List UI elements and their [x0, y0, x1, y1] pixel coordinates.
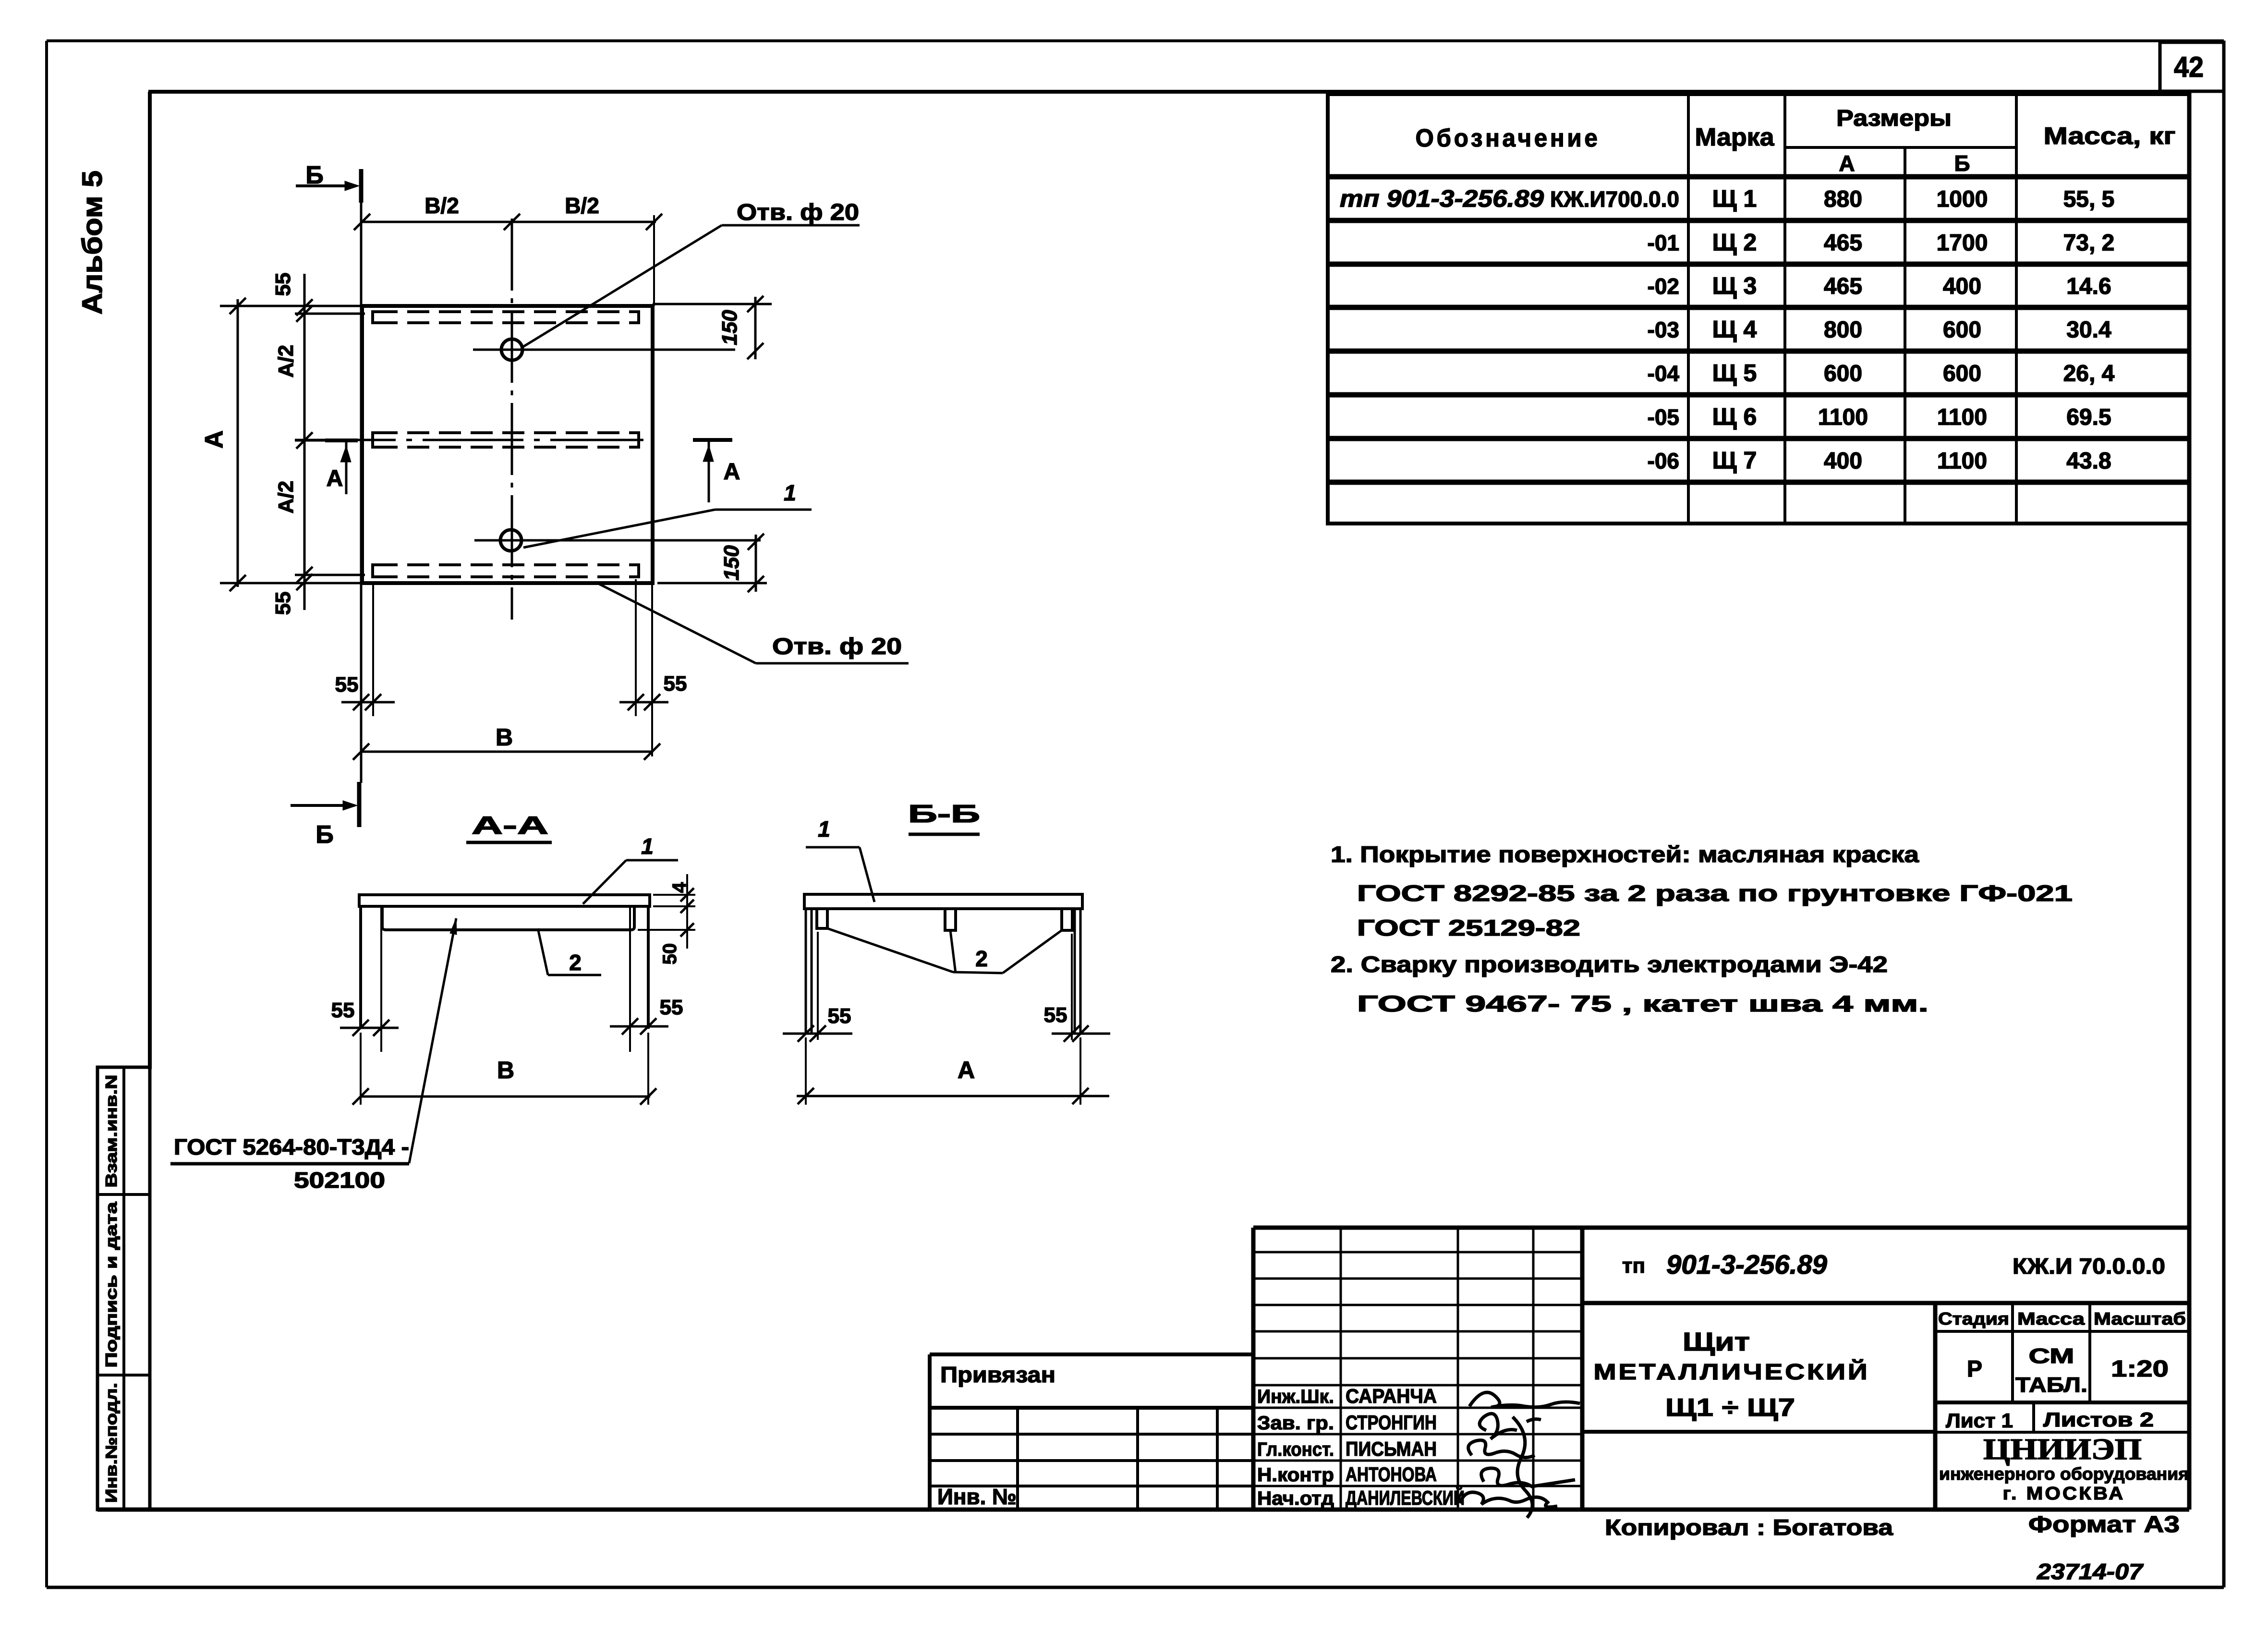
svg-text:465: 465: [1824, 231, 1862, 256]
svg-text:Привязан: Привязан: [940, 1362, 1055, 1387]
svg-text:ТАБЛ.: ТАБЛ.: [2015, 1373, 2087, 1397]
svg-text:Взам.инв.N: Взам.инв.N: [102, 1075, 120, 1188]
svg-text:А/2: А/2: [274, 481, 298, 513]
svg-text:Щ 4: Щ 4: [1712, 316, 1757, 343]
svg-text:1: 1: [641, 834, 654, 859]
svg-text:Щ 1: Щ 1: [1712, 185, 1757, 212]
svg-text:Щ1 ÷ Щ7: Щ1 ÷ Щ7: [1665, 1394, 1795, 1422]
section line Б (vertical through left edge): [360, 202, 363, 783]
svg-text:А: А: [724, 459, 740, 485]
svg-text:Б: Б: [305, 161, 323, 189]
svg-text:Обозначение: Обозначение: [1416, 124, 1601, 152]
svg-text:инженерного оборудования: инженерного оборудования: [1939, 1464, 2189, 1484]
section marker А right: [693, 440, 740, 502]
svg-text:55: 55: [1044, 1003, 1067, 1027]
svg-text:600: 600: [1943, 317, 1981, 343]
dimension 4 (plate thickness): [653, 874, 695, 915]
slot 2 (middle, dashed) with section centerline: [295, 433, 643, 447]
stage/mass/scale values: [1967, 1344, 2169, 1397]
svg-text:1100: 1100: [1937, 405, 1987, 430]
svg-text:1: 1: [784, 480, 796, 505]
project number тп 901-3-256.89: [1622, 1249, 1827, 1279]
title block outer outline: [1253, 1228, 2189, 1510]
dimension 50 (bar height): [638, 915, 695, 964]
svg-text:СТРОНГИН: СТРОНГИН: [1346, 1411, 1437, 1434]
svg-text:Инв. №: Инв. №: [937, 1484, 1017, 1509]
svg-text:400: 400: [1943, 274, 1981, 299]
svg-text:В: В: [497, 1057, 514, 1084]
leader 1 (А-А plate): [583, 834, 678, 904]
svg-text:150: 150: [718, 310, 741, 345]
plan vertical centreline (dash-dot): [511, 219, 513, 620]
dimension В (А-А): [352, 1033, 656, 1105]
page number box 42: [2160, 42, 2224, 91]
svg-text:Нач.отд: Нач.отд: [1257, 1488, 1334, 1509]
svg-text:АНТОНОВА: АНТОНОВА: [1346, 1463, 1437, 1486]
svg-text:69.5: 69.5: [2066, 405, 2111, 430]
svg-text:600: 600: [1943, 361, 1981, 387]
svg-text:Б-Б: Б-Б: [908, 800, 980, 828]
svg-text:Стадия: Стадия: [1938, 1309, 2009, 1328]
drawing title Щит металлический Щ1÷Щ7: [1594, 1328, 1870, 1422]
svg-text:Подпись и дата: Подпись и дата: [102, 1202, 120, 1368]
svg-text:ГОСТ 5264-80-Т3Д4 -: ГОСТ 5264-80-Т3Д4 -: [174, 1134, 409, 1159]
svg-text:Отв. ф 20: Отв. ф 20: [737, 200, 859, 225]
svg-text:1700: 1700: [1937, 231, 1988, 256]
svg-text:4: 4: [669, 882, 690, 893]
signature rows labels: [1257, 1385, 1465, 1509]
svg-text:Марка: Марка: [1695, 123, 1775, 151]
А-А top plate (item 1): [359, 895, 650, 906]
left margin boxes (Взам.инв.N / Подпись и дата / Инв.N подл.): [97, 1067, 150, 1510]
hole top (Отв. ф20): [473, 339, 735, 360]
svg-text:Щ 2: Щ 2: [1712, 229, 1757, 256]
svg-text:1000: 1000: [1937, 187, 1988, 212]
svg-text:30.4: 30.4: [2066, 317, 2111, 343]
svg-text:САРАНЧА: САРАНЧА: [1346, 1385, 1437, 1407]
svg-text:Копировал : Богатова: Копировал : Богатова: [1605, 1515, 1893, 1540]
title cell bottom divider: [1582, 1430, 1935, 1434]
svg-text:465: 465: [1824, 274, 1862, 299]
svg-text:23714-07: 23714-07: [2037, 1559, 2144, 1584]
svg-text:55: 55: [271, 273, 295, 296]
leader Отв. ф20 (bottom slot): [595, 582, 909, 663]
album label rotated: Альбом 5: [77, 171, 108, 315]
svg-text:1100: 1100: [1818, 405, 1868, 430]
svg-text:-04: -04: [1648, 361, 1680, 386]
leader Отв. ф20 (top hole): [522, 200, 860, 348]
svg-text:-01: -01: [1648, 231, 1679, 256]
svg-text:ГОСТ 25129-82: ГОСТ 25129-82: [1357, 915, 1580, 940]
svg-text:1:20: 1:20: [2111, 1356, 2169, 1382]
section Б-Б title: [908, 800, 980, 834]
section А-А title: [466, 812, 552, 842]
document code КЖ.И 70.0.0.0: [2013, 1254, 2165, 1279]
leader 1 (Б-Б plate): [806, 816, 874, 902]
svg-text:КЖ.И 70.0.0.0: КЖ.И 70.0.0.0: [2013, 1254, 2165, 1279]
svg-text:55: 55: [331, 999, 355, 1022]
bottom margin: Копировал / Формат: [1605, 1512, 2180, 1540]
svg-text:1: 1: [818, 816, 830, 841]
section marker Б top: [296, 161, 361, 203]
svg-text:СМ: СМ: [2029, 1344, 2074, 1368]
svg-text:1. Покрытие поверхностей: мас: 1. Покрытие поверхностей: масляная краск…: [1331, 841, 1919, 867]
svg-text:В/2: В/2: [424, 193, 459, 218]
svg-text:55: 55: [271, 592, 295, 615]
leader 2 (Б-Б): [975, 946, 988, 971]
svg-text:МЕТАЛЛИЧЕСКИЙ: МЕТАЛЛИЧЕСКИЙ: [1594, 1359, 1870, 1384]
svg-text:Щ 6: Щ 6: [1712, 403, 1757, 430]
svg-text:Альбом 5: Альбом 5: [77, 171, 108, 315]
svg-text:502100: 502100: [294, 1168, 385, 1193]
svg-text:42: 42: [2174, 51, 2204, 83]
dimensions 55 55 (plan bottom): [335, 579, 687, 756]
svg-text:2. Сварку производить электр: 2. Сварку производить электродами Э-42: [1331, 951, 1888, 977]
dimension chain 55 / А/2 / А/2 / 55 (left): [271, 273, 365, 615]
svg-text:Щ 7: Щ 7: [1712, 447, 1757, 474]
А-А stiffener bar (item 2): [382, 908, 634, 930]
svg-text:Щ 5: Щ 5: [1712, 360, 1757, 387]
svg-text:55: 55: [664, 672, 687, 695]
svg-text:55: 55: [335, 673, 359, 696]
ГОСТ weld leader arrow: [409, 918, 457, 1163]
А-А legs (angle frame): [361, 906, 648, 1052]
svg-text:55: 55: [828, 1004, 851, 1028]
svg-text:2: 2: [975, 946, 988, 971]
svg-text:Листов 2: Листов 2: [2043, 1408, 2154, 1431]
section marker Б bottom: [291, 782, 359, 849]
dimension А (Б-Б): [797, 1037, 1109, 1105]
stage/mass/scale header: [1935, 1303, 2189, 1402]
svg-text:800: 800: [1824, 317, 1862, 343]
svg-text:-06: -06: [1648, 449, 1679, 474]
svg-text:Гл.конст.: Гл.конст.: [1257, 1439, 1334, 1460]
svg-text:Размеры: Размеры: [1836, 106, 1952, 131]
svg-text:А: А: [200, 430, 228, 449]
svg-text:Масса: Масса: [2017, 1309, 2085, 1328]
Б-Б top plate (item 1): [804, 894, 1082, 909]
dimension В (plan bottom): [353, 724, 660, 760]
svg-text:Р: Р: [1967, 1356, 1982, 1382]
svg-text:55: 55: [660, 996, 683, 1019]
svg-text:-03: -03: [1648, 317, 1679, 342]
svg-text:50: 50: [659, 943, 680, 965]
svg-text:ГОСТ 9467- 75 , катет шва: ГОСТ 9467- 75 , катет шва 4 мм.: [1357, 991, 1928, 1016]
slot 3 (bottom, dashed): [373, 565, 639, 577]
svg-text:880: 880: [1824, 187, 1862, 212]
svg-text:-05: -05: [1648, 405, 1679, 430]
signatures (handwritten squiggles): [1460, 1392, 1580, 1518]
svg-text:В: В: [496, 724, 513, 751]
slot 1 (top, dashed): [373, 312, 639, 323]
organization ЦНИИЭП: [1939, 1433, 2189, 1504]
svg-text:Формат А3: Формат А3: [2028, 1512, 2180, 1537]
svg-text:600: 600: [1824, 361, 1862, 387]
svg-text:Щ 3: Щ 3: [1712, 272, 1757, 299]
dimension 150 (bottom): [657, 534, 767, 592]
hole bottom (Отв. ф20): [474, 530, 761, 551]
svg-text:150: 150: [720, 545, 743, 581]
drawing inner frame: [97, 92, 2189, 1510]
dimension В/2 В/2 (top): [354, 193, 662, 306]
Б-Б legs: [806, 909, 1080, 1034]
svg-text:А/2: А/2: [274, 345, 298, 378]
dimensions 55 55 (Б-Б): [783, 932, 1110, 1042]
attachment stair table (Привязан / Инв.N): [930, 1354, 1253, 1510]
inventory number 23714-07: [2037, 1559, 2144, 1584]
leader 1 (bottom hole): [523, 480, 812, 548]
leader 2 (А-А): [538, 928, 601, 975]
svg-text:А: А: [327, 466, 343, 491]
svg-text:Щит: Щит: [1683, 1328, 1750, 1356]
dimensions 55 55 (А-А): [331, 996, 683, 1036]
svg-text:ПИСЬМАН: ПИСЬМАН: [1346, 1438, 1437, 1460]
sheet numbers row: [1935, 1402, 2189, 1432]
svg-text:Инж.Шк.: Инж.Шк.: [1257, 1386, 1334, 1407]
svg-text:Инв.№подл.: Инв.№подл.: [102, 1383, 120, 1503]
svg-text:Б: Б: [1954, 151, 1970, 176]
svg-text:Б: Б: [315, 821, 333, 849]
weld note ГОСТ 5264-80-ТЗД4-502100: [170, 1134, 409, 1193]
Б-Б diagonal braces (item 2 seen at angle): [827, 928, 1062, 973]
svg-text:400: 400: [1824, 449, 1862, 474]
table headers: [1416, 106, 2176, 176]
dimension 150 (top): [653, 296, 772, 359]
svg-text:Масса, кг: Масса, кг: [2044, 122, 2176, 149]
svg-text:ЦНИИЭП: ЦНИИЭП: [1983, 1433, 2142, 1466]
svg-text:КЖ.И700.0.0: КЖ.И700.0.0: [1550, 187, 1679, 212]
svg-text:1100: 1100: [1937, 449, 1987, 474]
svg-text:2: 2: [569, 950, 582, 975]
svg-text:В/2: В/2: [565, 193, 599, 218]
svg-text:-02: -02: [1648, 274, 1679, 299]
svg-text:А: А: [958, 1057, 975, 1084]
technical notes: [1331, 841, 2073, 1016]
dimension А (left overall): [200, 298, 362, 591]
svg-text:г. МОСКВА: г. МОСКВА: [2003, 1484, 2125, 1504]
svg-text:Масштаб: Масштаб: [2094, 1309, 2186, 1328]
svg-text:ГОСТ 8292-85 за 2 раза по: ГОСТ 8292-85 за 2 раза по грунтовке ГФ-0…: [1357, 880, 2073, 906]
svg-text:14.6: 14.6: [2066, 274, 2111, 299]
specification table: [1328, 94, 2189, 524]
svg-text:тп 901-3-256.89: тп 901-3-256.89: [1340, 185, 1544, 212]
svg-text:Н.контр: Н.контр: [1257, 1464, 1334, 1486]
svg-text:ДАНИЛЕВСКИЙ: ДАНИЛЕВСКИЙ: [1346, 1486, 1465, 1509]
svg-text:26, 4: 26, 4: [2063, 361, 2115, 387]
svg-text:901-3-256.89: 901-3-256.89: [1666, 1249, 1827, 1279]
svg-text:Лист 1: Лист 1: [1946, 1409, 2013, 1432]
title block signature grid: [1253, 1228, 1582, 1510]
svg-text:А-А: А-А: [472, 812, 548, 840]
Б-Б clips (bar ends seen in section): [817, 909, 1072, 930]
svg-text:73, 2: 73, 2: [2063, 231, 2115, 256]
svg-text:А: А: [1839, 151, 1855, 176]
section marker А left: [325, 440, 358, 494]
svg-text:Отв. ф 20: Отв. ф 20: [772, 634, 902, 659]
table rows: [1340, 185, 2115, 474]
plan view: panel plate outline: [362, 306, 653, 583]
svg-text:43.8: 43.8: [2066, 449, 2111, 474]
svg-text:Зав. гр.: Зав. гр.: [1257, 1413, 1334, 1434]
svg-text:55, 5: 55, 5: [2063, 187, 2115, 212]
svg-text:тп: тп: [1622, 1254, 1645, 1278]
